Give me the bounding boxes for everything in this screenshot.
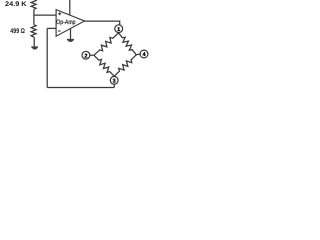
svg-text:499 Ω: 499 Ω	[10, 28, 25, 35]
wire feedback up to node 3	[113, 84, 115, 87]
wire noninverting input	[34, 14, 56, 16]
resistor bridge 2-3	[94, 55, 114, 76]
svg-text:1: 1	[117, 27, 120, 33]
op-amp U1 triangle	[56, 10, 84, 37]
op-amp minus input sign	[58, 30, 61, 32]
wire output	[85, 21, 120, 25]
svg-text:2: 2	[84, 53, 87, 59]
resistor R2 499 ohm	[31, 25, 36, 38]
resistor bridge 1-2	[94, 33, 119, 55]
wire op-amp ground stub	[70, 29, 72, 39]
wire	[33, 37, 35, 46]
svg-text:Op-Amp: Op-Amp	[56, 19, 76, 26]
node 2 circle	[82, 51, 90, 59]
ground (op-amp)	[67, 39, 74, 42]
resistor bridge 3-4	[114, 55, 136, 76]
svg-text:3: 3	[113, 79, 116, 85]
node 3 circle	[110, 76, 118, 84]
wire node4 stub	[136, 53, 140, 56]
resistor bridge 1-4	[119, 33, 137, 55]
wire	[33, 9, 35, 24]
ground (left, below 499 ohm)	[31, 39, 74, 50]
node 1 circle	[115, 25, 123, 33]
op-amp plus input sign	[58, 12, 61, 31]
node 4 circle	[140, 50, 148, 58]
wire feedback down	[46, 28, 48, 87]
resistor R1 24.9K	[31, 0, 36, 9]
wire feedback bottom	[47, 87, 114, 89]
wire power supply	[69, 0, 71, 15]
wire node2 stub	[90, 54, 94, 56]
wire inverting input	[47, 27, 56, 29]
svg-text:24.9 K: 24.9 K	[5, 1, 27, 8]
